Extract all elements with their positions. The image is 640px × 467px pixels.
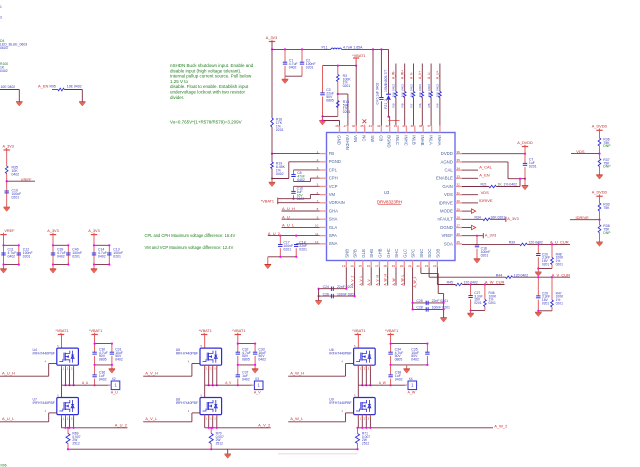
svg-text:A_EN: A_EN <box>479 173 490 178</box>
svg-text:45: 45 <box>360 124 364 128</box>
svg-text:A_W_2: A_W_2 <box>494 423 508 428</box>
svg-text:33: 33 <box>457 175 461 179</box>
svg-text:R95: R95 <box>50 84 56 88</box>
svg-text:R6: R6 <box>418 103 422 107</box>
svg-text:0201: 0201 <box>299 248 307 252</box>
svg-text:ENABLE: ENABLE <box>436 176 453 181</box>
svg-text:1% 0402: 1% 0402 <box>504 183 518 187</box>
svg-text:120 0402: 120 0402 <box>514 273 528 277</box>
svg-text:A_U: A_U <box>111 390 118 394</box>
svg-text:GHC: GHC <box>386 248 391 257</box>
svg-text:GLA: GLA <box>329 225 338 230</box>
svg-text:A_U_H: A_U_H <box>282 206 295 211</box>
svg-text:0805: 0805 <box>99 358 107 362</box>
svg-text:15: 15 <box>359 264 363 268</box>
svg-text:CPH: CPH <box>329 176 338 181</box>
svg-text:Internal pullup current source: Internal pullup current source. Pull bel… <box>170 74 252 79</box>
svg-text:46: 46 <box>352 124 356 128</box>
svg-text:30: 30 <box>457 199 461 203</box>
svg-text:*VBAT1: *VBAT1 <box>261 200 274 204</box>
svg-text:A_V-: A_V- <box>409 72 413 79</box>
svg-text:GLB: GLB <box>361 249 366 258</box>
svg-text:A_3V3: A_3V3 <box>47 229 58 233</box>
svg-text:23: 23 <box>425 264 429 268</box>
svg-text:PZ1_2: PZ1_2 <box>384 99 388 109</box>
svg-text:A_W+: A_W+ <box>401 70 405 79</box>
svg-text:SNC: SNC <box>419 249 424 258</box>
svg-text:VDS: VDS <box>576 149 585 154</box>
svg-text:0201: 0201 <box>542 301 550 305</box>
svg-text:A_V: A_V <box>254 390 261 394</box>
svg-text:0402: 0402 <box>57 255 65 259</box>
svg-text:GLC: GLC <box>402 249 407 258</box>
svg-text:R4: R4 <box>436 103 440 107</box>
svg-text:0201: 0201 <box>113 255 121 259</box>
svg-text:DGND: DGND <box>440 225 453 230</box>
svg-text:2512: 2512 <box>362 442 370 446</box>
svg-text:31: 31 <box>457 191 461 195</box>
svg-text:1SMB4805-T/T: 1SMB4805-T/T <box>384 70 388 92</box>
svg-text:37: 37 <box>427 124 431 128</box>
svg-text:IDRIVE: IDRIVE <box>576 215 590 220</box>
svg-text:0201: 0201 <box>72 255 80 259</box>
svg-text:IRFH7440PBF: IRFH7440PBF <box>176 401 198 405</box>
svg-text:28: 28 <box>457 216 461 220</box>
svg-text:A_V_H: A_V_H <box>145 370 158 375</box>
svg-text:13: 13 <box>342 264 346 268</box>
svg-text:VIN: VIN <box>353 135 358 142</box>
svg-text:A_W-: A_W- <box>392 71 396 79</box>
svg-text:*VBAT1: *VBAT1 <box>385 329 398 333</box>
svg-text:10E 0402: 10E 0402 <box>1 85 16 89</box>
svg-text:0402: 0402 <box>276 172 284 176</box>
svg-text:R21: R21 <box>481 183 487 187</box>
svg-text:GHB: GHB <box>378 248 383 257</box>
svg-text:C26: C26 <box>323 292 329 296</box>
svg-text:GAIN: GAIN <box>442 184 452 189</box>
svg-text:A_W_L: A_W_L <box>400 275 404 286</box>
svg-text:18: 18 <box>383 264 387 268</box>
svg-text:A_W_H: A_W_H <box>290 370 304 375</box>
svg-text:IRFH7440PBF: IRFH7440PBF <box>329 401 351 405</box>
svg-text:120 0402: 120 0402 <box>529 241 543 245</box>
svg-text:PL1: PL1 <box>322 46 328 50</box>
svg-text:R5: R5 <box>427 103 431 107</box>
svg-text:IDRIVE: IDRIVE <box>479 198 493 203</box>
svg-text:C24: C24 <box>323 285 329 289</box>
svg-text:0402: 0402 <box>258 358 266 362</box>
svg-text:SW: SW <box>370 135 375 142</box>
svg-text:nFAULT: nFAULT <box>438 217 454 222</box>
svg-text:VREF: VREF <box>4 229 15 233</box>
svg-text:A_U: A_U <box>282 214 290 219</box>
svg-text:NC: NC <box>362 135 367 141</box>
svg-text:0402: 0402 <box>115 358 123 362</box>
svg-text:A_U_2: A_U_2 <box>115 422 128 427</box>
svg-text:nSHDN: nSHDN <box>345 135 350 149</box>
svg-text:100nF 0201: 100nF 0201 <box>337 292 355 296</box>
svg-text:10K 0402: 10K 0402 <box>401 84 405 98</box>
svg-text:0402: 0402 <box>12 173 20 177</box>
svg-text:disable. Float to enable. Esta: disable. Float to enable. Establish inpu… <box>170 84 249 89</box>
svg-text:A_3V3: A_3V3 <box>88 229 99 233</box>
svg-text:VM: VM <box>329 192 336 197</box>
svg-text:0402: 0402 <box>0 69 8 73</box>
svg-text:0201: 0201 <box>481 253 489 257</box>
svg-text:25: 25 <box>457 240 461 244</box>
svg-text:*VBAT1: *VBAT1 <box>89 329 102 333</box>
svg-text:R44: R44 <box>496 273 502 277</box>
svg-text:0201: 0201 <box>529 165 537 169</box>
svg-text:A_W: A_W <box>379 381 386 385</box>
svg-text:0402: 0402 <box>8 255 16 259</box>
svg-text:0402: 0402 <box>242 377 250 381</box>
svg-text:34: 34 <box>457 166 461 170</box>
svg-text:INLA: INLA <box>428 135 433 145</box>
svg-text:disable input (high voltage to: disable input (high voltage tolerant). <box>170 68 241 73</box>
svg-text:*VBAT1: *VBAT1 <box>55 329 68 333</box>
svg-text:IRFH7440PBF: IRFH7440PBF <box>176 352 198 356</box>
svg-text:A_V_L: A_V_L <box>145 416 158 421</box>
svg-text:nSHDN Buck shutdown input. Ena: nSHDN Buck shutdown input. Enable and <box>170 63 254 68</box>
svg-text:SNB: SNB <box>344 249 349 258</box>
svg-text:SHA: SHA <box>329 217 338 222</box>
svg-text:10E 0402: 10E 0402 <box>67 84 82 88</box>
svg-text:AGND: AGND <box>441 159 453 164</box>
svg-text:A_DVDD: A_DVDD <box>592 125 608 129</box>
svg-text:X2: X2 <box>112 377 116 381</box>
svg-text:A_V: A_V <box>225 381 232 385</box>
svg-text:GND: GND <box>336 135 341 144</box>
svg-text:SOC: SOC <box>427 248 432 257</box>
svg-text:A_U+: A_U+ <box>436 71 440 79</box>
svg-text:0201: 0201 <box>276 128 284 132</box>
svg-text:44: 44 <box>369 124 373 128</box>
svg-text:10K 0402: 10K 0402 <box>436 84 440 98</box>
svg-text:R39: R39 <box>509 241 515 245</box>
svg-text:1K: 1K <box>498 183 503 187</box>
svg-text:A_V_2: A_V_2 <box>258 422 271 427</box>
svg-text:27: 27 <box>457 224 461 228</box>
svg-text:A_U-: A_U- <box>427 71 431 79</box>
svg-text:R96: R96 <box>1 464 7 467</box>
svg-text:42: 42 <box>385 124 389 128</box>
svg-text:0201: 0201 <box>12 196 20 200</box>
svg-text:SPB: SPB <box>353 249 358 258</box>
svg-text:A_U_L: A_U_L <box>282 223 295 228</box>
svg-text:A_U_L: A_U_L <box>2 416 15 421</box>
svg-text:SHB: SHB <box>369 249 374 258</box>
svg-text:divider.: divider. <box>170 95 184 100</box>
svg-text:10K 0402: 10K 0402 <box>418 84 422 98</box>
svg-text:IRFH7440PBF: IRFH7440PBF <box>33 401 55 405</box>
svg-text:0402: 0402 <box>297 178 305 182</box>
svg-text:X4: X4 <box>409 377 413 381</box>
svg-text:GHA: GHA <box>329 208 338 213</box>
svg-text:SPC: SPC <box>411 249 416 258</box>
svg-text:0402: 0402 <box>395 377 403 381</box>
svg-text:*VBAT1: *VBAT1 <box>352 329 365 333</box>
svg-text:2512: 2512 <box>216 442 224 446</box>
svg-text:A_W_CUR: A_W_CUR <box>485 280 505 285</box>
svg-text:75K: 75K <box>603 206 610 210</box>
svg-text:IDRIVE: IDRIVE <box>439 200 453 205</box>
svg-text:X3: X3 <box>255 377 259 381</box>
svg-text:0201: 0201 <box>542 262 550 266</box>
svg-text:0402: 0402 <box>98 255 106 259</box>
svg-text:FB: FB <box>329 151 335 156</box>
svg-text:36: 36 <box>457 150 461 154</box>
svg-text:DVDD: DVDD <box>441 151 453 156</box>
svg-text:20: 20 <box>400 264 404 268</box>
svg-text:0805: 0805 <box>395 358 403 362</box>
svg-text:0201: 0201 <box>556 301 564 305</box>
svg-text:16: 16 <box>367 264 371 268</box>
svg-text:C28: C28 <box>416 306 422 310</box>
svg-text:A_DVDD: A_DVDD <box>592 191 608 195</box>
svg-text:A_W: A_W <box>392 277 396 285</box>
svg-text:INHC: INHC <box>403 135 408 145</box>
svg-text:24: 24 <box>433 264 437 268</box>
svg-text:IRFH7440PBF: IRFH7440PBF <box>33 352 55 356</box>
svg-text:INLC: INLC <box>395 135 400 145</box>
svg-text:SOA: SOA <box>444 241 453 246</box>
svg-text:48: 48 <box>335 124 339 128</box>
svg-text:R7: R7 <box>409 103 413 107</box>
svg-text:14: 14 <box>350 264 354 268</box>
svg-text:10K 0201: 10K 0201 <box>490 216 505 220</box>
svg-text:10K 0402: 10K 0402 <box>409 84 413 98</box>
svg-text:VDRAIN: VDRAIN <box>329 200 345 205</box>
svg-text:C25: C25 <box>416 299 422 303</box>
svg-text:0805: 0805 <box>242 358 250 362</box>
svg-text:*VBAT1: *VBAT1 <box>232 329 245 333</box>
svg-text:0201: 0201 <box>343 110 351 114</box>
svg-text:26: 26 <box>457 232 461 236</box>
svg-text:32: 32 <box>457 183 461 187</box>
svg-text:C4 0.1uF 0402: C4 0.1uF 0402 <box>376 83 380 105</box>
svg-text:0201: 0201 <box>23 255 31 259</box>
svg-text:A_3V3: A_3V3 <box>2 144 13 148</box>
svg-text:35: 35 <box>457 158 461 162</box>
svg-text:3: 3 <box>0 16 2 20</box>
svg-text:VM and VCP Maximum voltage dif: VM and VCP Maximum voltage difference: 1… <box>145 245 234 250</box>
svg-text:DNP: DNP <box>603 231 611 235</box>
svg-text:40: 40 <box>402 124 406 128</box>
svg-text:10K 0402: 10K 0402 <box>392 84 396 98</box>
svg-text:DNP: DNP <box>603 144 611 148</box>
svg-text:0402: 0402 <box>99 377 107 381</box>
svg-text:0402: 0402 <box>297 197 305 201</box>
svg-text:SNA: SNA <box>329 241 338 246</box>
svg-text:43: 43 <box>377 124 381 128</box>
svg-text:A_V+: A_V+ <box>418 71 422 79</box>
svg-text:1.25 V to: 1.25 V to <box>170 79 189 84</box>
svg-text:PGND: PGND <box>329 159 341 164</box>
svg-text:A_W_L: A_W_L <box>290 416 304 421</box>
svg-text:A_U: A_U <box>82 381 89 385</box>
svg-text:CPL: CPL <box>329 167 338 172</box>
svg-text:VREF: VREF <box>441 233 453 238</box>
svg-text:A_V_2: A_V_2 <box>351 275 355 285</box>
svg-text:A_W_2: A_W_2 <box>413 277 417 288</box>
svg-text:0402: 0402 <box>411 358 419 362</box>
svg-text:A_DVDD: A_DVDD <box>517 141 533 145</box>
svg-text:VCP: VCP <box>329 184 338 189</box>
svg-text:R9: R9 <box>392 103 396 107</box>
svg-text:INHB: INHB <box>420 135 425 145</box>
svg-text:100nF 0201: 100nF 0201 <box>432 306 450 310</box>
svg-text:DRV8323RH: DRV8323RH <box>377 199 402 204</box>
svg-text:VDS: VDS <box>481 190 490 195</box>
svg-text:0402: 0402 <box>289 65 297 69</box>
svg-text:BGND: BGND <box>387 135 392 147</box>
svg-text:INHA: INHA <box>437 135 442 145</box>
svg-text:1: 1 <box>0 5 2 9</box>
svg-text:A_V_CUR: A_V_CUR <box>552 272 571 277</box>
svg-text:22: 22 <box>416 264 420 268</box>
svg-text:A_U_2: A_U_2 <box>268 231 281 236</box>
svg-text:22nF 0201: 22nF 0201 <box>432 299 449 303</box>
svg-text:A_V_L: A_V_L <box>359 275 363 285</box>
svg-text:2512: 2512 <box>72 442 80 446</box>
svg-text:A_3V3: A_3V3 <box>507 217 518 221</box>
svg-text:undervoltage lockout with two: undervoltage lockout with two resistor <box>170 90 246 95</box>
svg-text:SHC: SHC <box>394 249 399 258</box>
svg-text:R34: R34 <box>475 216 481 220</box>
svg-text:A_V_H: A_V_H <box>375 274 379 285</box>
svg-text:R8: R8 <box>401 103 405 107</box>
svg-text:CPL and CPH Maximum voltage di: CPL and CPH Maximum voltage difference: … <box>145 233 236 238</box>
svg-text:Vo=0.765V*(1+R578/R579)=3.209V: Vo=0.765V*(1+R578/R579)=3.209V <box>170 120 242 125</box>
svg-text:47: 47 <box>344 124 348 128</box>
svg-text:A_V: A_V <box>367 278 371 285</box>
svg-text:INLB: INLB <box>412 135 417 145</box>
svg-text:A_W_H: A_W_H <box>384 274 388 286</box>
svg-text:SPA: SPA <box>329 233 337 238</box>
svg-text:17: 17 <box>375 264 379 268</box>
svg-text:0201: 0201 <box>474 301 482 305</box>
svg-text:U3: U3 <box>384 190 390 195</box>
svg-text:A_U_H: A_U_H <box>2 370 15 375</box>
svg-text:A_3V3: A_3V3 <box>266 36 277 40</box>
svg-text:29: 29 <box>457 207 461 211</box>
svg-text:21: 21 <box>408 264 412 268</box>
svg-text:0201: 0201 <box>306 65 314 69</box>
svg-text:19: 19 <box>392 264 396 268</box>
svg-text:0805: 0805 <box>326 98 334 102</box>
svg-text:0201: 0201 <box>343 84 351 88</box>
svg-text:VDS: VDS <box>444 192 453 197</box>
svg-text:A_CAL: A_CAL <box>479 164 492 169</box>
svg-text:A_EN: A_EN <box>38 83 49 88</box>
svg-text:*VBAT1: *VBAT1 <box>199 329 212 333</box>
svg-text:DNP: DNP <box>603 165 611 169</box>
svg-text:A_3V3: A_3V3 <box>485 234 496 238</box>
svg-text:A_W: A_W <box>408 390 416 394</box>
svg-text:R45: R45 <box>447 281 453 285</box>
svg-text:SOB: SOB <box>435 249 440 258</box>
svg-text:CB: CB <box>378 135 383 141</box>
svg-text:MODE: MODE <box>440 209 453 214</box>
svg-text:0201: 0201 <box>283 248 291 252</box>
svg-text:0603: 0603 <box>0 46 8 50</box>
svg-text:0201: 0201 <box>489 301 497 305</box>
svg-text:0201: 0201 <box>556 262 564 266</box>
svg-text:10K 0402: 10K 0402 <box>427 84 431 98</box>
svg-text:IRFH7440PBF: IRFH7440PBF <box>329 352 351 356</box>
svg-text:CAL: CAL <box>445 168 454 173</box>
